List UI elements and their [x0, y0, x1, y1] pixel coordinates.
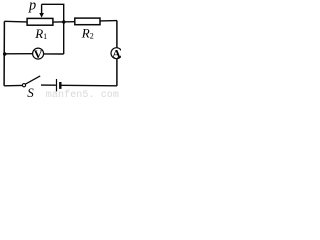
battery negative plate — [59, 82, 61, 89]
battery positive plate — [56, 79, 58, 91]
svg-text:V: V — [34, 47, 43, 61]
node mid junction — [62, 20, 65, 23]
resistor R2 — [75, 18, 100, 25]
svg-text:R1: R1 — [34, 26, 47, 41]
wire battery left — [41, 84, 56, 86]
wire R1 left — [4, 20, 26, 23]
wire voltmeter right — [44, 53, 64, 55]
svg-text:manfen5. com: manfen5. com — [46, 89, 119, 99]
svg-text:R2: R2 — [81, 26, 94, 41]
switch S blade — [26, 76, 41, 84]
wire voltmeter left — [5, 53, 33, 55]
wire right vertical upper — [116, 21, 118, 48]
voltmeter V — [33, 47, 44, 61]
wire bottom left — [4, 84, 22, 86]
wire R2 right — [100, 20, 117, 22]
ammeter A — [111, 47, 122, 61]
switch S pivot — [22, 84, 25, 87]
rheostat R1 — [27, 18, 53, 25]
svg-text:p: p — [28, 0, 36, 14]
svg-text:S: S — [27, 85, 34, 99]
wire slider top loop — [42, 4, 64, 54]
wire left vertical — [3, 21, 5, 86]
slider arrow of rheostat — [39, 4, 44, 17]
svg-text:A: A — [112, 47, 121, 61]
wire right vertical lower — [116, 59, 118, 86]
wire R1 to R2 — [54, 21, 75, 23]
wire bottom right — [61, 84, 117, 87]
node left junction — [3, 52, 7, 56]
